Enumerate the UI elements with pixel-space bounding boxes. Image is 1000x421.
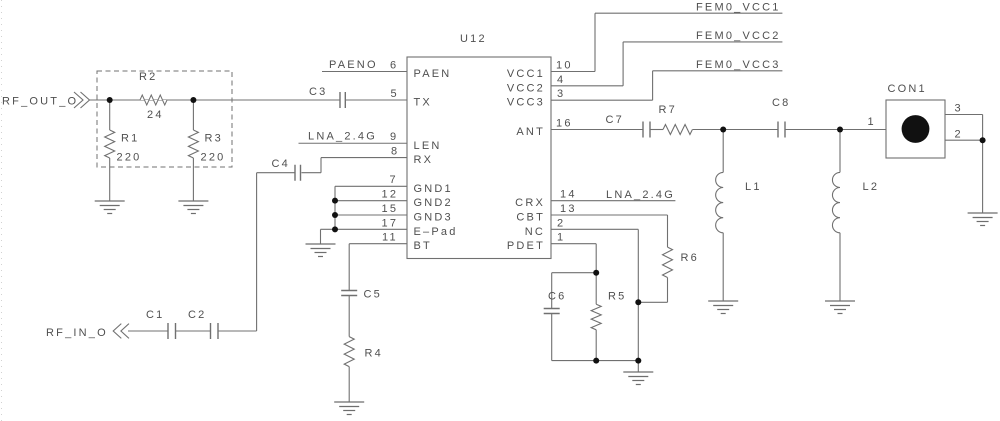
svg-text:R5: R5 — [608, 291, 626, 303]
svg-text:10: 10 — [556, 60, 573, 72]
svg-text:15: 15 — [382, 203, 399, 215]
svg-text:PAENO: PAENO — [329, 59, 378, 71]
svg-text:16: 16 — [556, 118, 573, 130]
svg-text:2: 2 — [557, 217, 565, 229]
svg-text:U12: U12 — [460, 33, 487, 45]
svg-text:GND1: GND1 — [414, 183, 453, 195]
svg-text:VCC2: VCC2 — [507, 82, 545, 94]
svg-text:LNA_2.4G: LNA_2.4G — [606, 189, 675, 201]
svg-text:RF_IN_O: RF_IN_O — [46, 327, 108, 339]
svg-text:3: 3 — [557, 88, 565, 100]
svg-text:17: 17 — [382, 218, 399, 230]
svg-text:12: 12 — [382, 189, 399, 201]
svg-text:R6: R6 — [681, 252, 699, 264]
svg-text:CON1: CON1 — [888, 83, 927, 95]
svg-text:TX: TX — [414, 97, 432, 109]
svg-text:4: 4 — [557, 74, 565, 86]
svg-text:7: 7 — [390, 174, 398, 186]
svg-text:2: 2 — [955, 129, 963, 141]
svg-text:L1: L1 — [745, 181, 762, 193]
svg-text:R4: R4 — [365, 348, 383, 360]
svg-text:C1: C1 — [146, 309, 164, 321]
svg-text:PAEN: PAEN — [414, 68, 452, 80]
svg-text:C4: C4 — [272, 158, 290, 170]
svg-text:C6: C6 — [548, 291, 566, 303]
svg-text:220: 220 — [117, 152, 142, 164]
svg-text:RF_OUT_O: RF_OUT_O — [2, 96, 78, 108]
svg-text:PDET: PDET — [507, 240, 545, 252]
svg-text:GND3: GND3 — [414, 212, 453, 224]
svg-text:CRX: CRX — [515, 197, 545, 209]
svg-text:C2: C2 — [188, 309, 206, 321]
svg-text:R2: R2 — [139, 71, 157, 83]
svg-text:LNA_2.4G: LNA_2.4G — [308, 131, 377, 143]
svg-text:RX: RX — [414, 154, 434, 166]
svg-text:220: 220 — [201, 152, 226, 164]
svg-text:6: 6 — [390, 60, 398, 72]
svg-text:C3: C3 — [309, 86, 327, 98]
svg-text:FEM0_VCC3: FEM0_VCC3 — [696, 59, 781, 71]
svg-text:3: 3 — [955, 103, 963, 115]
svg-text:9: 9 — [390, 131, 398, 143]
svg-text:CBT: CBT — [516, 212, 545, 224]
svg-text:L2: L2 — [863, 181, 880, 193]
svg-text:VCC3: VCC3 — [507, 97, 545, 109]
svg-text:R1: R1 — [121, 133, 139, 145]
svg-text:5: 5 — [391, 88, 399, 100]
svg-text:C7: C7 — [606, 114, 624, 126]
svg-text:FEM0_VCC1: FEM0_VCC1 — [696, 2, 781, 14]
svg-text:1: 1 — [557, 232, 565, 244]
svg-text:VCC1: VCC1 — [507, 68, 545, 80]
svg-text:GND2: GND2 — [414, 197, 453, 209]
svg-text:1: 1 — [868, 116, 876, 128]
svg-text:ANT: ANT — [516, 126, 545, 138]
svg-text:24: 24 — [147, 109, 164, 121]
svg-text:LEN: LEN — [414, 140, 442, 152]
svg-text:11: 11 — [382, 232, 398, 244]
svg-text:R3: R3 — [205, 133, 223, 145]
svg-text:R7: R7 — [659, 104, 677, 116]
svg-text:NC: NC — [525, 226, 545, 238]
svg-text:BT: BT — [414, 240, 432, 252]
svg-text:13: 13 — [560, 203, 577, 215]
svg-text:C8: C8 — [772, 97, 790, 109]
svg-text:14: 14 — [560, 189, 577, 201]
svg-text:FEM0_VCC2: FEM0_VCC2 — [696, 30, 781, 42]
svg-text:C5: C5 — [364, 289, 382, 301]
svg-text:E–Pad: E–Pad — [414, 226, 458, 238]
svg-text:8: 8 — [391, 146, 399, 158]
